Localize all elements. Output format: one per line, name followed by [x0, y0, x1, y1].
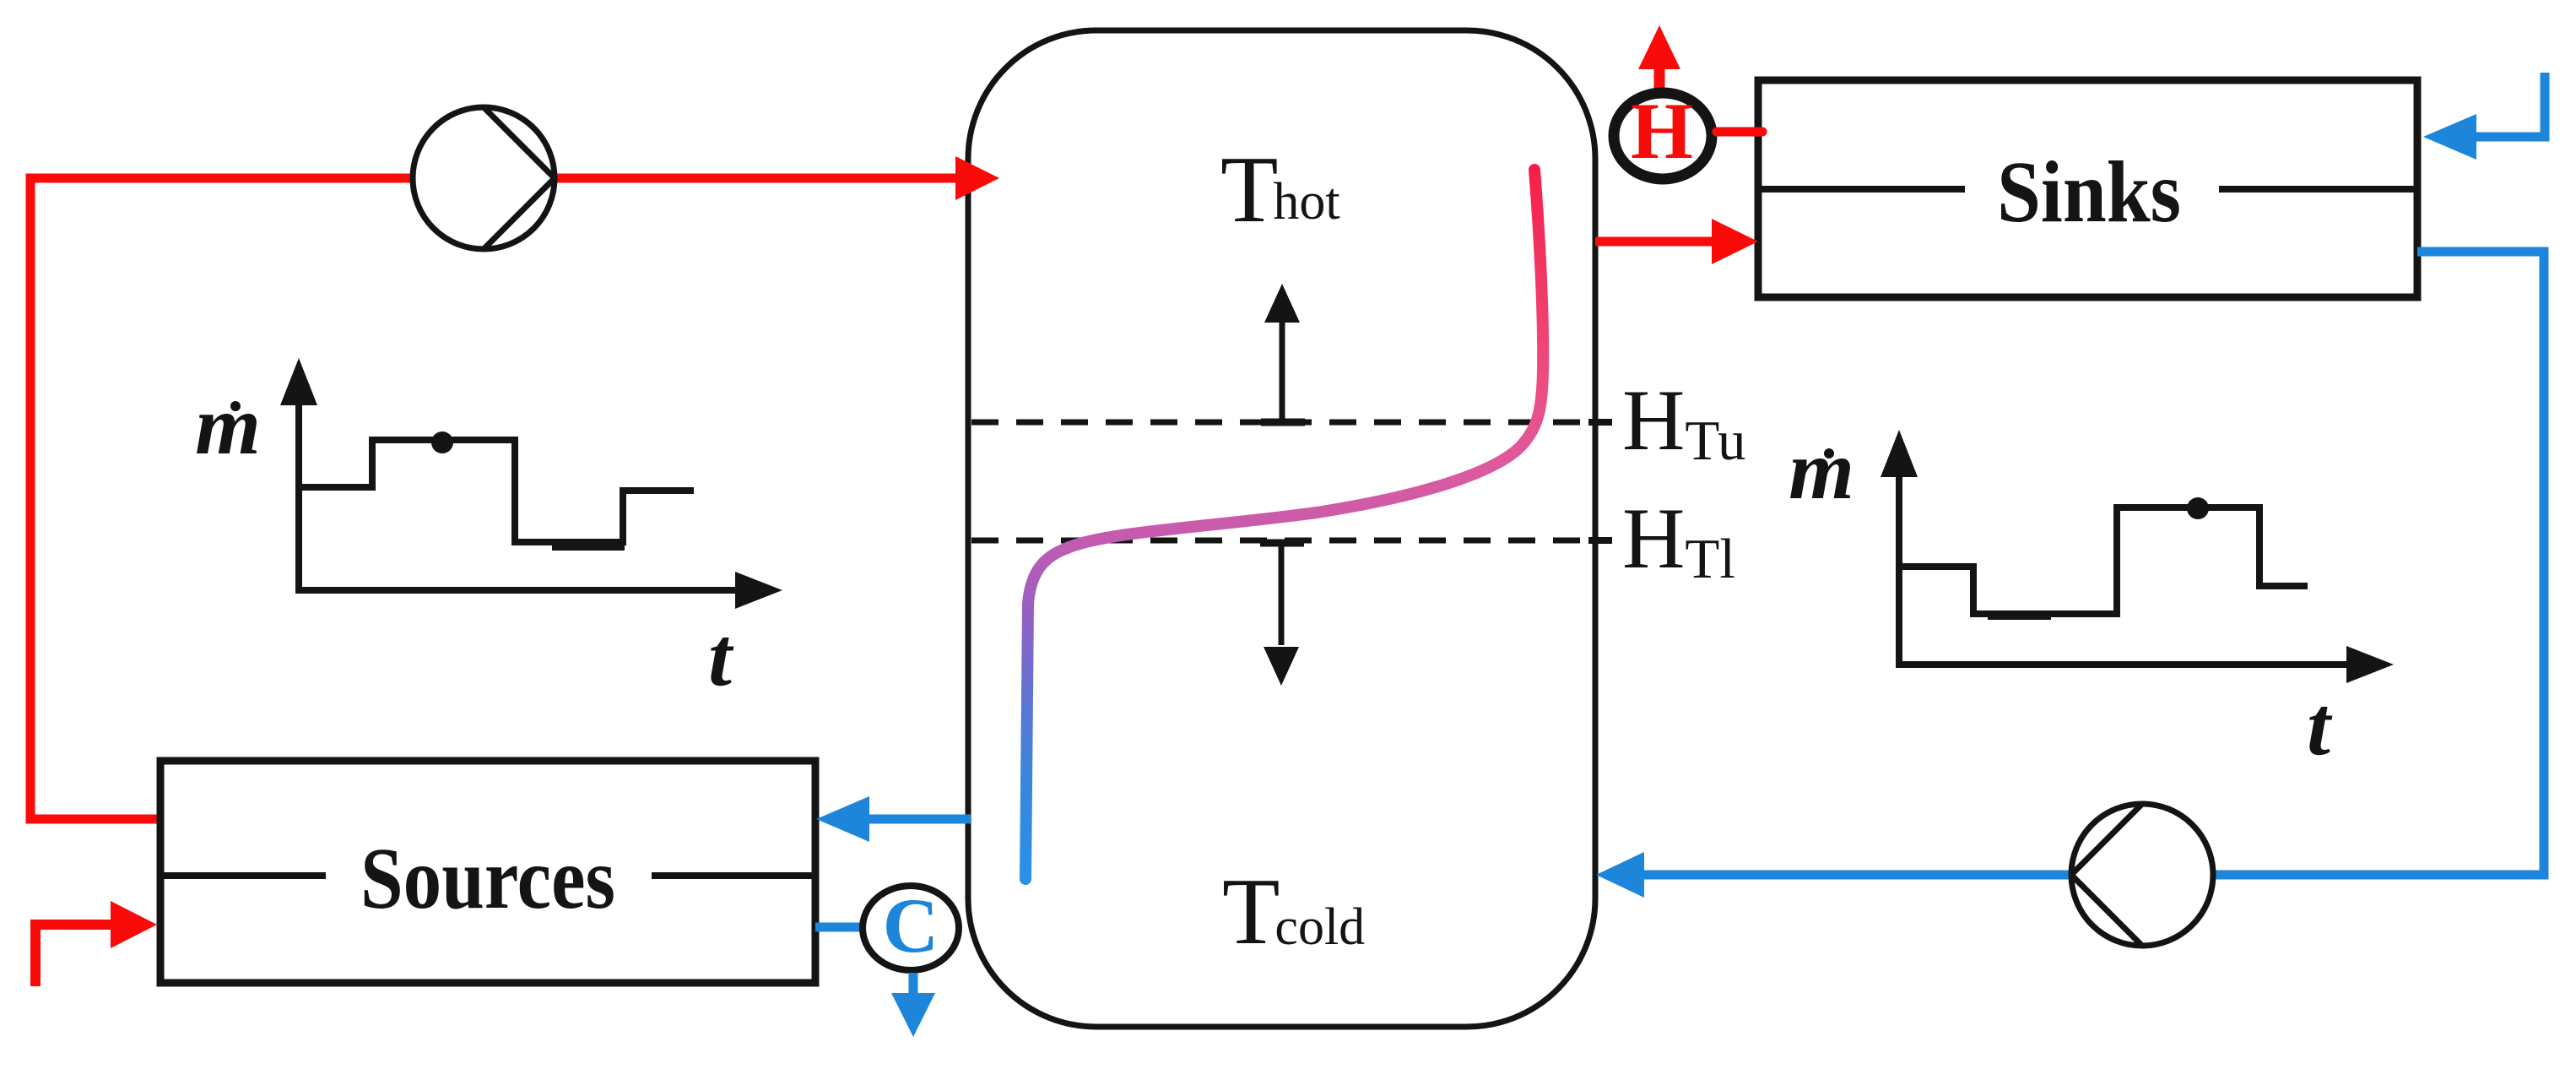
svg-text:Sinks: Sinks — [1997, 144, 2181, 241]
svg-text:t: t — [2307, 679, 2333, 773]
svg-text:C: C — [883, 882, 939, 969]
svg-text:H: H — [1631, 86, 1693, 176]
svg-text:m: m — [195, 378, 261, 472]
svg-text:Sources: Sources — [360, 830, 615, 927]
svg-text:m: m — [1789, 423, 1854, 517]
svg-text:t: t — [708, 610, 734, 703]
